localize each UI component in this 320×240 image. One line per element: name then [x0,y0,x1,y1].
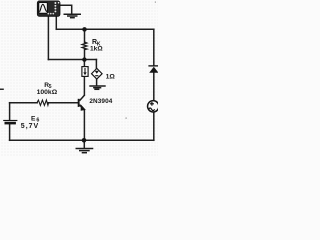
svg-text:5,7V: 5,7V [21,123,39,130]
svg-text:E: E [31,115,36,122]
wire [83,140,85,148]
svg-text:1Ω: 1Ω [106,74,116,81]
svg-text:1kΩ: 1kΩ [90,46,103,53]
node (junction dot mid) [82,57,86,61]
wire [47,16,49,60]
wire [55,16,57,30]
label RK [92,39,101,47]
resistor R5 [37,100,49,105]
wire [48,59,96,61]
wire [95,60,97,69]
function generator XFG [37,1,60,16]
wire [56,28,154,30]
label R5 [44,82,52,90]
label E6 [31,115,39,123]
AC source V1 [148,101,159,112]
ground (function generator) [64,14,82,17]
wire [10,139,154,141]
wire [153,112,155,140]
wire [83,110,85,140]
node (junction dot bottom wire) [82,138,87,143]
wire [84,29,86,42]
battery E6 [3,120,17,125]
wire [9,124,11,140]
wire [60,5,72,14]
wire [83,76,85,95]
diode D1 [148,65,159,73]
resistor RK [82,42,87,50]
dependent source diamond (1 Ohm) [92,68,103,79]
wire [153,29,155,65]
wire [48,102,78,104]
node (junction dot top wire) [82,27,87,32]
wire [9,103,11,120]
current probe box [82,67,88,77]
wire [10,102,38,104]
wire [83,60,85,67]
clipped mark at left edge [0,89,4,91]
ground (bottom) [76,149,94,153]
transistor Q1 2N3904 [78,95,86,110]
svg-text:100kΩ: 100kΩ [37,89,58,96]
ground (under diamond) [89,86,105,89]
svg-text:2N3904: 2N3904 [89,98,112,105]
wire [153,73,155,101]
wire [84,49,86,59]
wire [96,79,98,85]
